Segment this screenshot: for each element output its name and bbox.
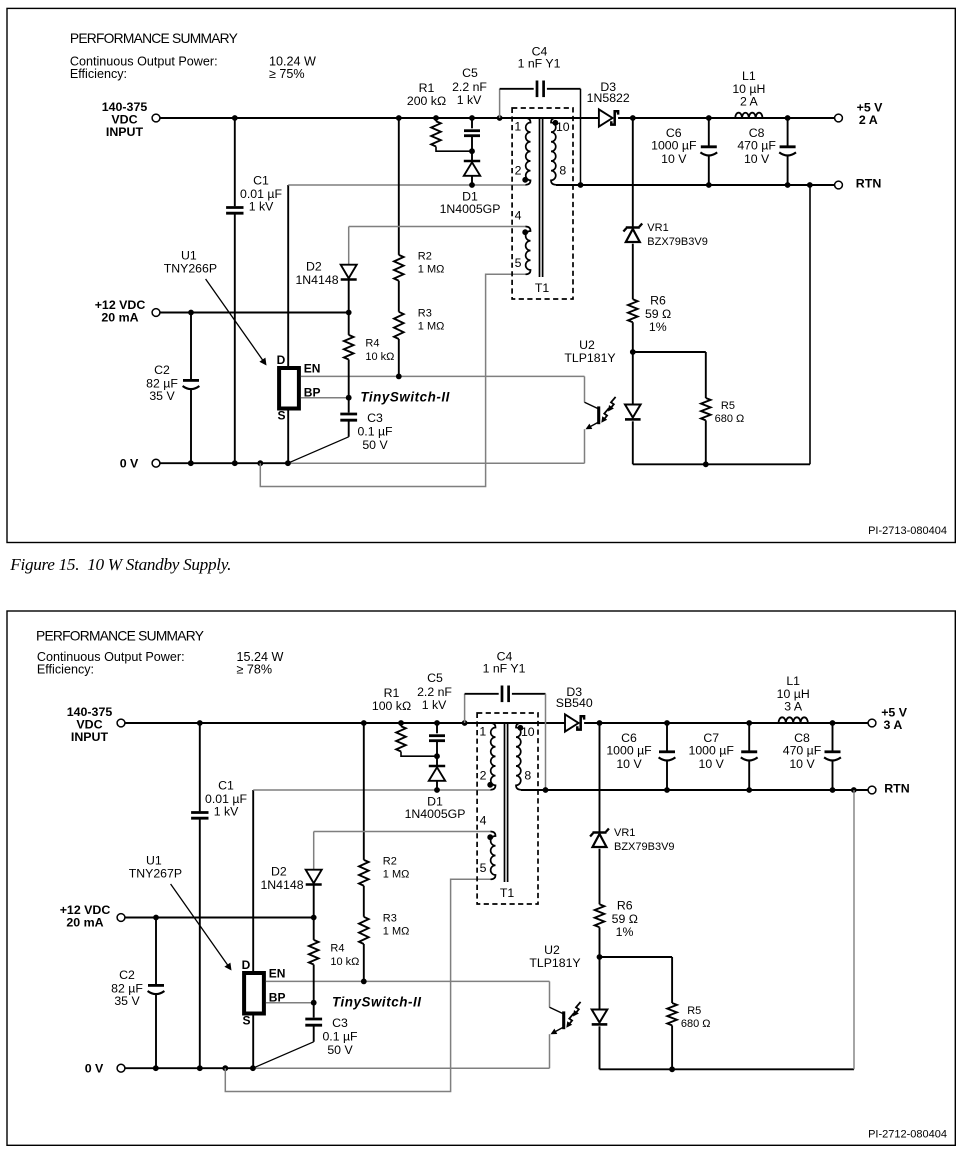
svg-text:10: 10 <box>556 120 570 134</box>
svg-text:INPUT: INPUT <box>71 730 109 744</box>
svg-text:0.1 µF: 0.1 µF <box>322 1030 358 1044</box>
capacitor C2 <box>155 918 157 985</box>
svg-text:1 MΩ: 1 MΩ <box>383 869 410 881</box>
wire input rail <box>125 722 565 724</box>
svg-text:10 kΩ: 10 kΩ <box>365 351 394 363</box>
capacitor C2 <box>190 313 192 380</box>
transistor U2 phototransistor <box>549 981 551 1007</box>
svg-text:EN: EN <box>269 967 286 981</box>
capacitor C7 <box>748 723 750 751</box>
inductor L1 <box>779 717 808 723</box>
resistor R6 <box>628 299 638 322</box>
svg-text:C1: C1 <box>253 174 269 188</box>
resistor R1 <box>400 723 402 726</box>
diode D1 <box>436 756 438 765</box>
capacitor C8 <box>832 723 834 751</box>
wire R1 to D1 <box>436 147 472 152</box>
resistor R3 <box>394 312 404 339</box>
svg-text:R3: R3 <box>383 913 397 925</box>
node RTN <box>868 786 876 794</box>
svg-text:59 Ω: 59 Ω <box>645 307 671 321</box>
svg-text:1 MΩ: 1 MΩ <box>418 321 445 333</box>
capacitor C8 <box>787 118 789 146</box>
wire R3 to EN <box>363 944 365 981</box>
node +5V output <box>868 719 876 727</box>
photon arrows <box>609 397 615 410</box>
svg-text:INPUT: INPUT <box>106 125 144 139</box>
wire S pin <box>252 1012 254 1068</box>
svg-text:BZX79B3V9: BZX79B3V9 <box>647 236 708 248</box>
transistor U1 TinySwitch-II block <box>244 973 264 1014</box>
svg-text:U1: U1 <box>146 854 162 868</box>
wire R5 to return <box>671 1025 673 1069</box>
LED U2 diode <box>625 405 641 418</box>
svg-text:R3: R3 <box>418 308 432 320</box>
svg-text:R6: R6 <box>650 293 666 307</box>
svg-text:2 A: 2 A <box>859 113 878 127</box>
svg-text:1N4005GP: 1N4005GP <box>405 807 466 821</box>
svg-text:Figure 15. 10 W Standby Suppl: Figure 15. 10 W Standby Supply. <box>9 555 231 574</box>
svg-text:2.2 nF: 2.2 nF <box>417 685 452 699</box>
diode D3 <box>565 714 579 731</box>
diode D2 <box>306 870 322 884</box>
svg-text:4: 4 <box>515 208 522 222</box>
wire S pin <box>287 407 289 463</box>
svg-text:35 V: 35 V <box>149 389 175 403</box>
diode D3 <box>599 109 613 126</box>
resistor R3 <box>359 917 369 944</box>
svg-text:59 Ω: 59 Ω <box>612 912 638 926</box>
svg-text:R4: R4 <box>330 943 344 955</box>
resistor R2 <box>359 860 369 886</box>
wire junction to R5 <box>633 351 706 353</box>
resistor R6 <box>595 904 605 927</box>
zener VR1 <box>593 831 607 834</box>
svg-text:100 kΩ: 100 kΩ <box>372 699 411 713</box>
svg-text:L1: L1 <box>742 69 756 83</box>
svg-text:0 V: 0 V <box>85 1062 104 1076</box>
wire BP line <box>266 1002 314 1004</box>
LED U2 diode <box>592 1010 608 1023</box>
wire C3 to source <box>288 437 349 463</box>
transformer T1 primary winding <box>526 118 531 185</box>
transformer T1 core <box>539 117 541 277</box>
svg-text:R1: R1 <box>419 81 435 95</box>
svg-text:1 MΩ: 1 MΩ <box>418 264 445 276</box>
svg-text:TNY267P: TNY267P <box>129 867 182 881</box>
svg-text:TinySwitch-II: TinySwitch-II <box>360 390 450 405</box>
svg-text:1N4005GP: 1N4005GP <box>440 202 501 216</box>
svg-text:TinySwitch-II: TinySwitch-II <box>332 995 422 1010</box>
svg-text:1 nF Y1: 1 nF Y1 <box>518 56 561 70</box>
wire input rail <box>160 117 599 119</box>
svg-text:U1: U1 <box>181 249 197 263</box>
svg-text:35 V: 35 V <box>114 994 140 1008</box>
resistor R5 <box>667 1003 677 1025</box>
svg-text:Efficiency:: Efficiency: <box>37 663 94 677</box>
node RTN <box>835 181 843 189</box>
svg-text:5: 5 <box>480 861 487 875</box>
wire R1 to D1 <box>401 752 437 757</box>
svg-text:C2: C2 <box>119 968 135 982</box>
svg-text:0.1 µF: 0.1 µF <box>357 425 393 439</box>
svg-text:1 kV: 1 kV <box>249 200 274 214</box>
svg-text:T1: T1 <box>535 281 550 295</box>
svg-text:3 A: 3 A <box>784 700 803 714</box>
svg-text:PERFORMANCE SUMMARY: PERFORMANCE SUMMARY <box>70 31 238 46</box>
svg-text:R5: R5 <box>721 400 735 412</box>
svg-text:2 A: 2 A <box>740 95 759 109</box>
wire R6 to LED <box>599 927 601 1009</box>
node +5V output <box>835 114 843 122</box>
wire C3 to source <box>253 1042 314 1068</box>
wire R6 to LED <box>632 322 634 404</box>
capacitor C3 <box>313 1003 315 1018</box>
wire T1 pin 2 to drain <box>253 789 491 791</box>
wire U1 pointer arrow <box>171 884 229 966</box>
svg-text:RTN: RTN <box>856 176 882 190</box>
wire LED to return <box>632 421 634 464</box>
svg-text:C5: C5 <box>462 66 478 80</box>
svg-text:1%: 1% <box>649 320 667 334</box>
diode D2 <box>341 265 357 279</box>
svg-text:R4: R4 <box>365 338 379 350</box>
svg-text:1000 µF: 1000 µF <box>651 139 697 153</box>
svg-text:TNY266P: TNY266P <box>164 262 217 276</box>
capacitor C4 <box>464 694 466 723</box>
svg-text:2: 2 <box>515 163 522 177</box>
wire bias winding return (0V to T1 pin 5) <box>225 879 491 1091</box>
svg-text:10: 10 <box>521 725 535 739</box>
svg-text:10 V: 10 V <box>661 152 687 166</box>
wire VR1 to R6 <box>599 849 601 905</box>
svg-text:EN: EN <box>304 362 321 376</box>
svg-text:C5: C5 <box>427 671 443 685</box>
svg-text:1: 1 <box>514 120 521 134</box>
svg-text:VR1: VR1 <box>647 222 668 234</box>
capacitor C5 <box>436 723 438 733</box>
svg-text:10 V: 10 V <box>744 152 770 166</box>
transformer T1 box <box>477 713 538 904</box>
svg-text:680 Ω: 680 Ω <box>715 413 745 425</box>
svg-text:2: 2 <box>480 768 487 782</box>
svg-text:R2: R2 <box>418 251 432 263</box>
svg-text:R1: R1 <box>384 686 400 700</box>
svg-text:R2: R2 <box>383 856 397 868</box>
resistor R4 <box>309 940 319 965</box>
svg-text:20 mA: 20 mA <box>66 916 103 930</box>
svg-text:≥ 78%: ≥ 78% <box>237 663 273 677</box>
svg-text:VR1: VR1 <box>614 827 635 839</box>
wire RTN rail <box>556 184 835 186</box>
svg-text:C2: C2 <box>154 363 170 377</box>
wire T1 pin 4 to D2 <box>349 226 526 228</box>
svg-text:TLP181Y: TLP181Y <box>564 351 615 365</box>
svg-text:D2: D2 <box>306 259 322 273</box>
resistor R1 <box>435 118 437 121</box>
wire 0V rail <box>160 462 288 464</box>
transformer T1 bias winding <box>526 227 531 275</box>
svg-text:0 V: 0 V <box>120 457 139 471</box>
svg-text:C3: C3 <box>367 411 383 425</box>
svg-text:470 µF: 470 µF <box>783 744 822 758</box>
wire R2-R3 <box>363 886 365 917</box>
wire T1 pin 4 to D2 <box>314 831 491 833</box>
wire VR1 to R6 <box>632 244 634 300</box>
svg-text:D: D <box>242 958 251 972</box>
wire +5V rail <box>630 115 636 121</box>
svg-text:1N4148: 1N4148 <box>295 273 338 287</box>
svg-text:8: 8 <box>559 163 566 177</box>
wire D pin <box>287 185 289 366</box>
capacitor C6 <box>708 118 710 146</box>
capacitor C3 <box>348 398 350 413</box>
node +12 VDC 20 mA <box>117 914 125 922</box>
wire 0V rail <box>125 1067 253 1069</box>
transformer T1 bias winding <box>491 832 496 880</box>
svg-text:SB540: SB540 <box>556 696 593 710</box>
figure 16 schematic (15 W standby supply) <box>7 611 955 1145</box>
resistor R2 <box>394 255 404 281</box>
svg-text:10 V: 10 V <box>699 757 725 771</box>
wire +5V rail <box>597 720 603 726</box>
svg-text:R6: R6 <box>617 898 633 912</box>
wire D2 to +12V <box>313 886 315 918</box>
svg-text:1 kV: 1 kV <box>422 698 447 712</box>
svg-text:S: S <box>242 1014 250 1028</box>
wire R4 to BP <box>313 965 315 1003</box>
svg-text:RTN: RTN <box>884 781 910 795</box>
wire junction to R5 <box>600 956 673 958</box>
wire bias winding return (0V to T1 pin 5) <box>260 274 526 486</box>
diode D1 <box>471 151 473 160</box>
resistor R4 <box>344 335 354 360</box>
svg-text:S: S <box>277 409 285 423</box>
svg-text:680 Ω: 680 Ω <box>681 1018 711 1030</box>
svg-text:1: 1 <box>479 725 486 739</box>
transformer T1 core <box>504 722 506 882</box>
capacitor C4 <box>499 89 501 118</box>
wire BP line <box>301 397 349 399</box>
wire +12V to R4 <box>313 918 315 940</box>
svg-text:C3: C3 <box>332 1016 348 1030</box>
svg-text:D2: D2 <box>271 864 287 878</box>
svg-text:C1: C1 <box>218 779 234 793</box>
node 0 V <box>117 1064 125 1072</box>
inductor L1 <box>735 113 762 118</box>
svg-text:Efficiency:: Efficiency: <box>70 67 127 81</box>
wire R3 to EN <box>398 339 400 376</box>
svg-text:200 kΩ: 200 kΩ <box>407 94 446 108</box>
svg-text:2.2 nF: 2.2 nF <box>452 80 487 94</box>
svg-text:10 kΩ: 10 kΩ <box>330 956 359 968</box>
svg-text:3 A: 3 A <box>884 718 903 732</box>
zener VR1 <box>626 226 640 229</box>
svg-text:4: 4 <box>480 813 487 827</box>
wire U1 pointer arrow <box>206 279 264 361</box>
wire feedback return to RTN <box>809 185 811 464</box>
svg-text:R5: R5 <box>687 1005 701 1017</box>
wire LED to return <box>599 1026 601 1069</box>
svg-text:50 V: 50 V <box>362 438 388 452</box>
svg-text:8: 8 <box>524 768 531 782</box>
svg-text:1%: 1% <box>616 925 634 939</box>
schematic frame <box>7 611 955 1145</box>
wire +5V to VR1 <box>599 723 601 832</box>
transformer T1 box <box>512 108 573 299</box>
svg-text:PI-2712-080404: PI-2712-080404 <box>868 1129 947 1141</box>
capacitor C1 <box>199 723 201 811</box>
wire +5V to VR1 <box>632 118 634 227</box>
wire R2-R3 <box>398 281 400 312</box>
svg-text:470 µF: 470 µF <box>737 139 776 153</box>
wire sense resistor string <box>363 723 365 860</box>
svg-text:1 nF Y1: 1 nF Y1 <box>483 661 526 675</box>
capacitor C5 <box>471 118 473 128</box>
svg-text:1N5822: 1N5822 <box>587 91 630 105</box>
transformer T1 primary winding <box>491 723 496 790</box>
svg-text:L1: L1 <box>786 674 800 688</box>
wire +12V rail <box>160 312 349 314</box>
figure 15 schematic (10 W standby supply) <box>7 8 955 542</box>
node 140-375 VDC INPUT <box>117 719 125 727</box>
capacitor C6 <box>666 723 668 751</box>
svg-text:U2: U2 <box>544 943 560 957</box>
wire D pin <box>252 790 254 971</box>
transistor U2 phototransistor <box>584 376 586 402</box>
wire +12V to R4 <box>348 313 350 335</box>
svg-text:BZX79B3V9: BZX79B3V9 <box>614 841 675 853</box>
transformer T1 secondary winding <box>551 118 556 185</box>
svg-text:20 mA: 20 mA <box>101 311 138 325</box>
svg-text:PI-2713-080404: PI-2713-080404 <box>868 525 947 537</box>
svg-text:1 kV: 1 kV <box>214 805 239 819</box>
svg-text:TLP181Y: TLP181Y <box>529 956 580 970</box>
schematic frame <box>7 8 955 542</box>
svg-text:U2: U2 <box>579 338 595 352</box>
svg-text:50 V: 50 V <box>327 1043 353 1057</box>
wire sense resistor string <box>398 118 400 255</box>
svg-text:1 MΩ: 1 MΩ <box>383 926 410 938</box>
svg-text:10 V: 10 V <box>616 757 642 771</box>
svg-text:PERFORMANCE SUMMARY: PERFORMANCE SUMMARY <box>36 629 204 644</box>
wire +12V rail <box>125 917 314 919</box>
transistor U1 TinySwitch-II block <box>279 368 299 409</box>
photon arrows <box>574 1002 580 1015</box>
svg-text:1N4148: 1N4148 <box>260 878 303 892</box>
wire RTN rail <box>521 789 868 791</box>
node 140-375 VDC INPUT <box>152 114 160 122</box>
node 0 V <box>152 459 160 467</box>
svg-text:1 kV: 1 kV <box>457 93 482 107</box>
wire R4 to BP <box>348 360 350 398</box>
svg-text:T1: T1 <box>500 886 515 900</box>
wire EN line <box>301 375 585 377</box>
wire D2 to +12V <box>348 281 350 313</box>
wire T1 pin 2 to drain <box>288 184 526 186</box>
node +12 VDC 20 mA <box>152 309 160 317</box>
svg-text:D: D <box>277 353 286 367</box>
wire R5 to return <box>705 420 707 464</box>
wire feedback return to RTN <box>853 790 855 1069</box>
svg-text:1000 µF: 1000 µF <box>689 744 735 758</box>
svg-text:10 V: 10 V <box>789 757 815 771</box>
wire EN line <box>266 980 550 982</box>
svg-text:5: 5 <box>515 256 522 270</box>
svg-text:≥ 75%: ≥ 75% <box>269 67 305 81</box>
svg-text:1000 µF: 1000 µF <box>606 744 652 758</box>
capacitor C1 <box>234 118 236 206</box>
resistor R5 <box>701 398 711 420</box>
transformer T1 secondary winding <box>516 723 521 790</box>
